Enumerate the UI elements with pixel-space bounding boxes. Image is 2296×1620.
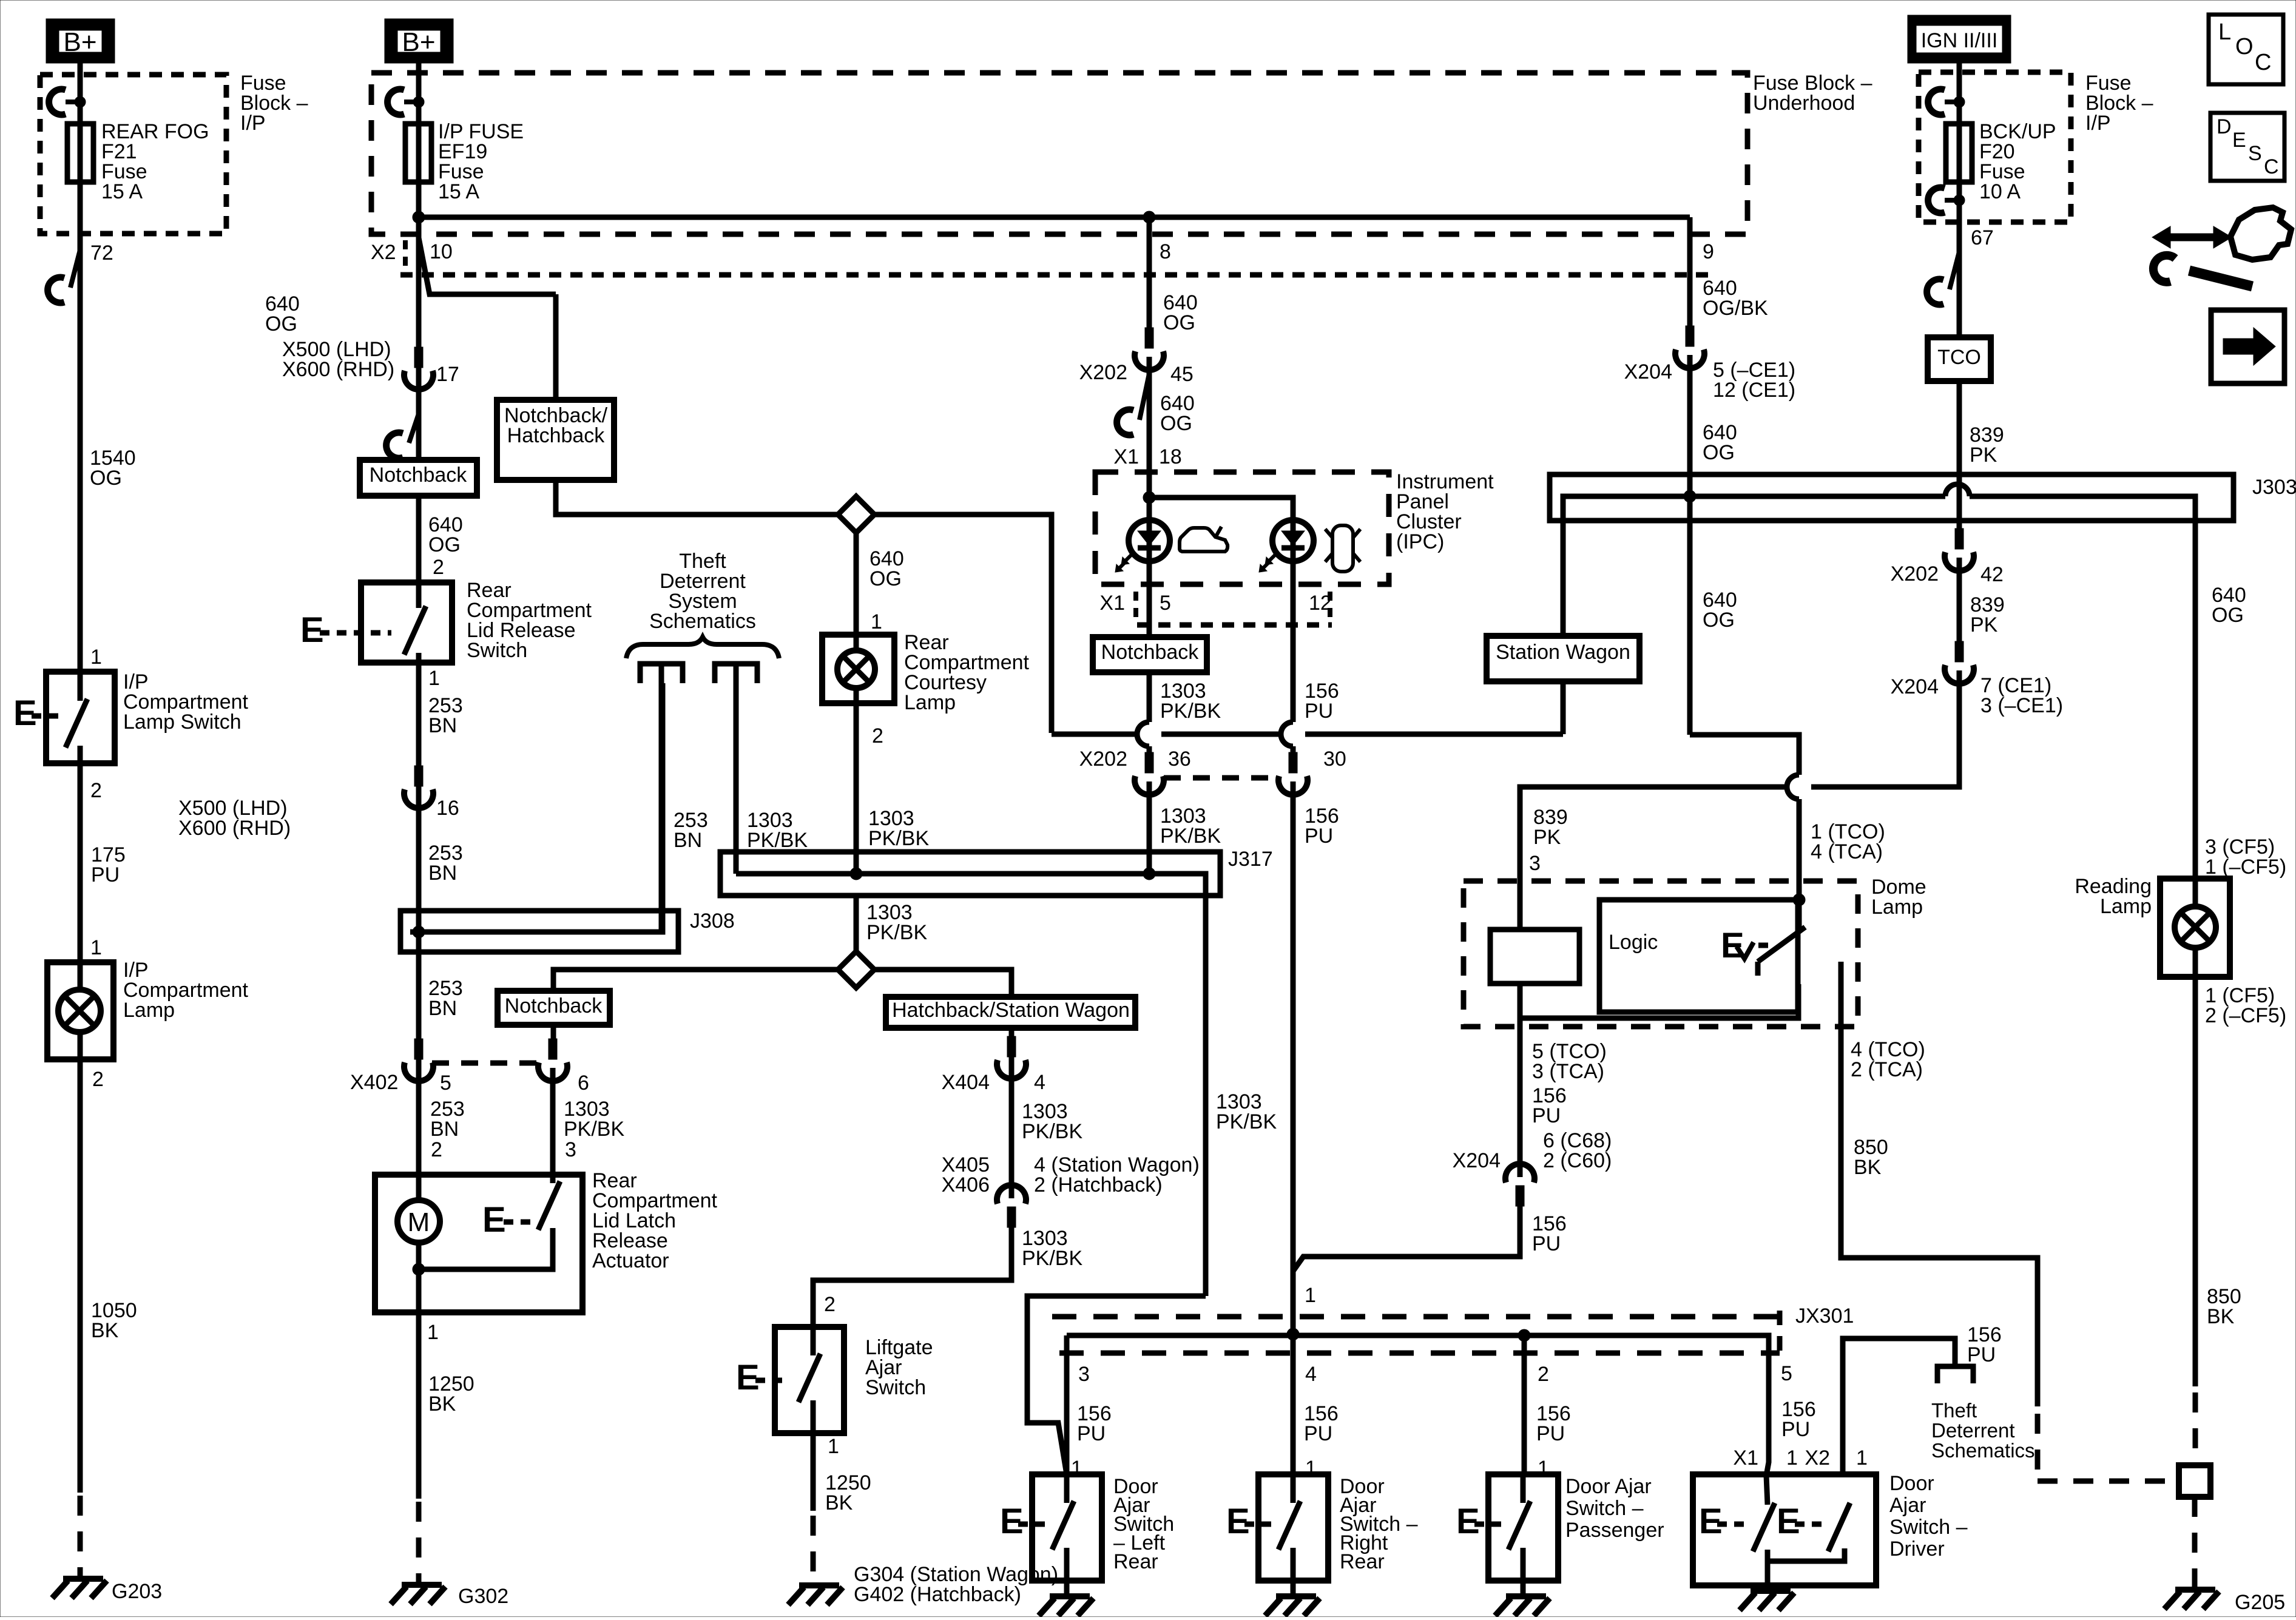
B+ power box 1 <box>46 19 115 63</box>
svg-text:OG: OG <box>265 312 297 336</box>
actuator switch contact L <box>419 1228 553 1269</box>
svg-text:G402 (Hatchback): G402 (Hatchback) <box>854 1583 1021 1606</box>
X402 dashed link <box>432 1061 539 1066</box>
Fuse Block - I/P dashed box <box>40 75 226 234</box>
svg-text:16: 16 <box>436 797 459 820</box>
ground G205 <box>2175 1587 2215 1593</box>
door ajar switch right rear lower contact <box>1291 1548 1296 1581</box>
actuator motor M <box>397 1200 440 1243</box>
svg-text:8: 8 <box>1160 240 1171 263</box>
door ajar switch passenger blade <box>1508 1501 1530 1550</box>
wire X404 to X405/X406 <box>1009 1065 1015 1198</box>
svg-text:Lamp: Lamp <box>2100 895 2152 918</box>
door ajar switch left rear box <box>1032 1474 1102 1581</box>
lamp switch lead <box>78 672 83 701</box>
svg-text:E: E <box>2232 129 2246 152</box>
svg-text:Lamp: Lamp <box>904 691 956 714</box>
svg-text:Hatchback/Station Wagon: Hatchback/Station Wagon <box>892 999 1130 1022</box>
svg-text:Ajar: Ajar <box>1889 1494 1926 1517</box>
svg-text:4: 4 <box>1034 1071 1045 1094</box>
svg-text:OG: OG <box>1163 311 1195 334</box>
X2 connector band dotted line <box>400 272 1717 278</box>
JX301 dashed band top <box>1052 1314 1780 1320</box>
car icon sedan <box>1180 528 1227 552</box>
svg-text:17: 17 <box>436 363 459 386</box>
svg-text:72: 72 <box>90 241 113 265</box>
svg-text:Switch: Switch <box>865 1376 926 1399</box>
connector X402 pin 5 <box>414 1039 423 1059</box>
svg-text:Deterrent: Deterrent <box>1931 1419 2015 1442</box>
bus wire to pins 8 and 9 <box>419 215 1690 220</box>
svg-text:PU: PU <box>1532 1104 1561 1127</box>
wire lamp to J317 <box>854 703 859 874</box>
long horizontal 1303 feed line y1210 <box>1052 732 1137 737</box>
junction dot at passenger drop <box>1518 1329 1530 1342</box>
wire pin5 down <box>1147 584 1152 637</box>
svg-text:X406: X406 <box>942 1173 990 1196</box>
svg-text:PU: PU <box>1781 1418 1810 1441</box>
ground G203 <box>63 1576 103 1582</box>
liftgate switch lead <box>811 1327 816 1355</box>
diamond splice 1 <box>838 496 874 533</box>
svg-text:BN: BN <box>428 714 457 737</box>
svg-text:BK: BK <box>2207 1305 2235 1328</box>
svg-text:30: 30 <box>1323 748 1346 771</box>
connector X202 pin 36 <box>1145 752 1153 773</box>
svg-text:S: S <box>2248 142 2262 165</box>
svg-text:I/P: I/P <box>240 112 266 135</box>
svg-text:PK/BK: PK/BK <box>1022 1247 1082 1270</box>
connector X202 pin 30 <box>1289 752 1297 773</box>
svg-text:E: E <box>482 1200 506 1240</box>
wire theft right stub to J317 <box>734 664 739 874</box>
door ajar switch passenger box <box>1488 1474 1558 1581</box>
LED indicator 2 (door ajar) <box>1272 520 1314 561</box>
ground under door ajar switch right rear <box>1276 1593 1316 1599</box>
svg-text:OG: OG <box>428 533 461 556</box>
wires into actuator <box>416 1068 422 1200</box>
driver ground stub <box>1765 1561 1771 1591</box>
svg-text:3 (TCA): 3 (TCA) <box>1532 1060 1604 1083</box>
LED indicator 1 (trunk open) <box>1129 520 1170 561</box>
I/P compartment lamp symbol <box>78 962 83 1059</box>
svg-text:O: O <box>2235 34 2254 59</box>
svg-text:PK: PK <box>1970 613 1998 636</box>
svg-text:2: 2 <box>872 724 883 748</box>
reading lamp symbol <box>2193 879 2198 977</box>
B+ power box 2 <box>385 19 453 63</box>
svg-text:C: C <box>2264 155 2279 178</box>
Rear Compartment Lid Latch Release Actuator box <box>375 1175 582 1312</box>
hop arc at x1894 crossing <box>1137 722 1149 746</box>
I/P Compartment Lamp Switch box <box>46 672 115 763</box>
svg-text:X1: X1 <box>1099 592 1125 615</box>
svg-text:1: 1 <box>90 936 102 959</box>
wire X204 down to JX301 jog <box>1293 1206 1520 1271</box>
svg-text:1: 1 <box>1305 1284 1316 1307</box>
diamond splice 2 <box>838 951 874 988</box>
svg-text:OG: OG <box>90 467 122 490</box>
svg-text:OG/BK: OG/BK <box>1703 297 1768 320</box>
Reading Lamp box <box>2160 879 2230 977</box>
JX301 band right edge <box>1777 1311 1783 1359</box>
jog hook below X500 17 <box>409 414 419 443</box>
Station Wagon box <box>1487 636 1639 681</box>
svg-text:10: 10 <box>430 240 453 263</box>
J303 middle wire <box>1563 496 1945 636</box>
in-line connector jog below 72 <box>70 250 80 288</box>
svg-text:PK: PK <box>1533 826 1561 849</box>
theft deterrent stub (driver) <box>1937 1366 1973 1383</box>
svg-text:Notchback: Notchback <box>505 994 603 1018</box>
IPC X1 pin row: dotted line <box>1137 623 1332 628</box>
svg-text:Passenger: Passenger <box>1565 1519 1664 1542</box>
connector X202 pin 45 <box>1145 328 1153 348</box>
svg-text:2: 2 <box>433 556 444 579</box>
svg-text:Lamp: Lamp <box>123 999 175 1022</box>
hop arc at x2131 crossing <box>1281 722 1293 746</box>
splice J317 outer box <box>720 852 1220 896</box>
in-line connector X500/X600 16 <box>414 766 423 786</box>
fuse F21 <box>67 124 93 182</box>
dome switch contact stub <box>1755 962 1761 976</box>
svg-text:BN: BN <box>428 997 457 1020</box>
door ajar switch left rear blade <box>1052 1501 1074 1550</box>
Notchback/Hatchback box <box>497 400 614 480</box>
svg-text:B+: B+ <box>402 27 435 57</box>
svg-text:2: 2 <box>431 1138 442 1161</box>
svg-text:OG: OG <box>869 567 902 590</box>
diamond-1 bottom to courtesy lamp <box>854 533 859 635</box>
arrow box <box>2211 310 2284 383</box>
door ajar switch right rear box <box>1258 1474 1328 1581</box>
wire M to bottom <box>416 1243 422 1312</box>
svg-text:X1: X1 <box>1113 445 1139 468</box>
svg-text:PK/BK: PK/BK <box>1160 700 1221 723</box>
wire to Notchback box <box>416 376 422 582</box>
svg-text:JX301: JX301 <box>1795 1304 1854 1328</box>
svg-text:1: 1 <box>428 667 440 690</box>
driver U link <box>1768 1548 1845 1561</box>
svg-text:BN: BN <box>430 1118 459 1141</box>
diamond-2 right branch to Hatchback/Station Wagon <box>874 970 1011 997</box>
dashed wire to G302 <box>416 1502 422 1585</box>
J308 middle wire <box>410 683 663 932</box>
wire X202-42 to X204 <box>1957 558 1962 644</box>
door ajar switch right rear top lead <box>1291 1474 1296 1503</box>
wire to X202-36 <box>1147 672 1152 722</box>
svg-text:PK/BK: PK/BK <box>868 827 929 850</box>
svg-text:(IPC): (IPC) <box>1396 530 1444 553</box>
svg-text:BN: BN <box>428 862 457 885</box>
lid release switch lead <box>416 582 422 608</box>
svg-text:2 (Hatchback): 2 (Hatchback) <box>1034 1173 1163 1196</box>
junction dot EF19 to bus <box>413 211 425 223</box>
door ajar switch left rear lower contact <box>1064 1548 1070 1581</box>
svg-text:1 (–CF5): 1 (–CF5) <box>2205 856 2286 879</box>
svg-text:2 (C60): 2 (C60) <box>1543 1149 1612 1172</box>
svg-text:Theft: Theft <box>1931 1399 1977 1422</box>
svg-text:Actuator: Actuator <box>592 1249 669 1272</box>
I/P Compartment Lamp box <box>47 962 113 1059</box>
connector X405/X406 flipped <box>1007 1207 1016 1227</box>
wire IGN into fuse block <box>1957 63 1962 124</box>
svg-text:X402: X402 <box>350 1071 398 1094</box>
svg-text:E: E <box>1721 926 1744 965</box>
wire B+1 to fuse block <box>78 63 83 124</box>
svg-text:Station Wagon: Station Wagon <box>1496 641 1630 664</box>
Liftgate Ajar Switch box <box>775 1327 844 1433</box>
svg-text:36: 36 <box>1168 748 1191 771</box>
fuse EF19 <box>405 124 431 182</box>
wire LED2 down <box>1291 520 1296 625</box>
svg-text:X202: X202 <box>1891 562 1939 586</box>
svg-text:X1: X1 <box>1733 1446 1758 1470</box>
driver X1 lead <box>1766 1476 1768 1505</box>
theft stub terminal right <box>715 664 757 683</box>
wire liftgate to ground <box>811 1433 816 1511</box>
junction dot pin8 <box>1143 211 1155 223</box>
svg-text:3: 3 <box>1078 1363 1090 1386</box>
svg-text:G203: G203 <box>112 1580 162 1603</box>
J317 middle wire <box>736 874 1206 1296</box>
bus corner down at pin 9 <box>1687 217 1693 329</box>
junction dot J317 at 1894 <box>1143 868 1155 880</box>
wire reading lamp down <box>2193 977 2198 1386</box>
connector hook at F20 top <box>1928 89 1945 115</box>
svg-text:PK/BK: PK/BK <box>1160 825 1221 848</box>
door ajar switch passenger ground stub <box>1521 1581 1526 1596</box>
JX301 dashed band bottom <box>1059 1351 1780 1356</box>
svg-text:42: 42 <box>1980 563 2004 586</box>
svg-text:Rear: Rear <box>1113 1550 1158 1573</box>
wire X204 through J303 <box>1687 355 1693 735</box>
courtesy lamp symbol <box>854 635 859 703</box>
junction dot JX301 at 2131 <box>1287 1328 1299 1340</box>
junction dot J303 <box>1684 490 1696 502</box>
svg-text:X202: X202 <box>1079 748 1127 771</box>
wire actuator to ground <box>416 1312 422 1499</box>
svg-text:BK: BK <box>825 1491 853 1514</box>
in-line connector X500/X600 17 <box>414 347 423 368</box>
car icon top view with doors <box>1332 525 1353 572</box>
wire to J308 <box>416 795 422 1068</box>
svg-text:BK: BK <box>1854 1156 1882 1179</box>
wire corner right to dome feed <box>1690 735 1799 775</box>
svg-text:3: 3 <box>565 1138 576 1161</box>
svg-text:OG: OG <box>2212 604 2244 627</box>
svg-text:2 (–CF5): 2 (–CF5) <box>2205 1004 2286 1027</box>
junction dot J308 <box>413 926 425 938</box>
svg-text:4 (TCA): 4 (TCA) <box>1811 840 1883 863</box>
svg-text:X204: X204 <box>1624 360 1672 383</box>
svg-text:3: 3 <box>1529 852 1541 875</box>
svg-text:PU: PU <box>1304 1422 1332 1445</box>
service icon: double arrow, car, wrench <box>2152 226 2232 248</box>
junction dot actuator <box>413 1263 425 1275</box>
svg-text:5: 5 <box>1160 592 1171 615</box>
wire pin12 down to X202-30 <box>1291 625 1296 722</box>
wire pin8 from bus down <box>1147 217 1152 330</box>
Dome Lamp dashed box <box>1464 881 1858 1027</box>
connector X402 pin 6 <box>549 1039 557 1059</box>
svg-text:BK: BK <box>91 1319 119 1342</box>
svg-text:X202: X202 <box>1079 361 1127 384</box>
Fuse Block - Underhood dashed box <box>371 73 1747 234</box>
svg-text:TCO: TCO <box>1937 346 1981 369</box>
Rear Compartment Courtesy Lamp box <box>822 635 894 703</box>
connector hook at EF19 top <box>388 89 404 115</box>
svg-text:M: M <box>408 1207 430 1237</box>
svg-text:2 (TCA): 2 (TCA) <box>1851 1058 1923 1081</box>
svg-text:Door: Door <box>1889 1472 1934 1495</box>
theft stub terminal left <box>640 664 683 683</box>
wire X204 down and left to Logic <box>1811 670 1959 787</box>
dome TCO/TCA output wire <box>1520 984 1798 1018</box>
hop arc 640OG over 839PK line <box>1787 775 1799 799</box>
diamond-1 right branch to IPC <box>874 515 1052 733</box>
wire X202-36 to J317 <box>1147 781 1152 874</box>
svg-text:15 A: 15 A <box>101 180 143 203</box>
Hatchback/Station Wagon box <box>886 997 1135 1028</box>
svg-text:X600 (RHD): X600 (RHD) <box>282 358 394 381</box>
dashed wire to G304/G402 <box>811 1516 816 1585</box>
liftgate switch lower contact <box>811 1400 816 1433</box>
svg-text:15 A: 15 A <box>438 180 479 203</box>
svg-text:Lamp: Lamp <box>1871 896 1923 919</box>
svg-text:18: 18 <box>1159 445 1182 468</box>
door ajar switch right rear blade <box>1278 1501 1300 1550</box>
junction dot LED branch <box>1143 491 1155 504</box>
svg-text:1: 1 <box>871 610 882 633</box>
svg-text:Underhood: Underhood <box>1753 92 1855 115</box>
svg-text:PK/BK: PK/BK <box>1022 1120 1082 1143</box>
svg-text:Switch: Switch <box>467 639 527 662</box>
Fuse Block - I/P dashed box (right) <box>1919 72 2071 222</box>
wire to X500 16 <box>416 663 422 795</box>
door ajar switch left rear top lead <box>1064 1474 1070 1503</box>
door ajar switch passenger lower contact <box>1521 1548 1526 1581</box>
door ajar switch passenger top lead <box>1521 1474 1526 1503</box>
wire lamp to ground <box>78 1059 83 1493</box>
Notchback label box 2 <box>498 991 610 1025</box>
Instrument Panel Cluster dashed box <box>1095 472 1389 584</box>
svg-text:PU: PU <box>1536 1422 1565 1445</box>
wire J303 to Station Wagon box <box>1561 496 1566 636</box>
lid release switch blade <box>404 606 426 655</box>
svg-text:10 A: 10 A <box>1979 180 2021 203</box>
driver X2 blade <box>1828 1503 1850 1551</box>
branch wire to LED2 <box>1149 498 1293 520</box>
jog hook below 67 <box>1950 252 1959 289</box>
svg-text:X204: X204 <box>1891 675 1939 698</box>
svg-text:J317: J317 <box>1228 848 1273 871</box>
dashed 850 BK dome path to splice <box>2035 1414 2041 1481</box>
svg-text:1: 1 <box>1786 1446 1798 1470</box>
splice square box <box>2179 1465 2210 1497</box>
wire TCO to J303 <box>1957 381 1962 532</box>
long 156 PU wire down to JX301 <box>1291 781 1296 1334</box>
connector X404 pin 4 <box>1007 1036 1016 1057</box>
svg-text:PU: PU <box>1532 1232 1561 1255</box>
svg-text:3 (–CE1): 3 (–CE1) <box>1980 694 2063 717</box>
svg-text:OG: OG <box>1703 441 1735 464</box>
svg-text:X2: X2 <box>371 241 396 264</box>
svg-text:D: D <box>2217 115 2232 138</box>
wire theft left stub to J308 <box>659 664 664 932</box>
wire branch down to Notchback/Hatchback box <box>553 294 559 400</box>
dome lamp 850 BK output <box>1841 962 2038 1406</box>
dashed wire to G205 <box>2192 1497 2198 1590</box>
svg-text:X2: X2 <box>1805 1446 1830 1470</box>
jog hook below X202-45 <box>1140 374 1149 420</box>
ground under door ajar switch passenger <box>1506 1593 1546 1599</box>
TCO box <box>1928 337 1991 381</box>
svg-text:PU: PU <box>1305 700 1333 723</box>
wire F21 down <box>78 182 83 672</box>
svg-text:Switch –: Switch – <box>1889 1516 1968 1539</box>
svg-text:4: 4 <box>1305 1363 1317 1386</box>
driver X1 blade <box>1753 1503 1775 1551</box>
svg-text:5: 5 <box>440 1072 451 1095</box>
splice J308 outer box <box>400 911 678 952</box>
svg-text:12 (CE1): 12 (CE1) <box>1713 379 1795 402</box>
svg-text:Lamp Switch: Lamp Switch <box>123 710 241 734</box>
svg-text:1: 1 <box>828 1435 839 1458</box>
Logic outer box <box>1599 900 1798 1012</box>
Notchback label box (col2) <box>360 460 477 496</box>
svg-text:X600 (RHD): X600 (RHD) <box>178 817 291 840</box>
svg-text:1: 1 <box>90 646 102 669</box>
svg-text:BK: BK <box>428 1392 456 1416</box>
liftgate switch blade <box>799 1354 820 1402</box>
ground G304/G402 <box>799 1582 839 1588</box>
ground under door ajar switch left rear <box>1050 1593 1090 1599</box>
ground under driver switch <box>1751 1588 1791 1594</box>
right rear switch drop <box>1291 1334 1296 1474</box>
svg-text:IGN II/III: IGN II/III <box>1921 29 1998 52</box>
lamp switch lower contact <box>78 746 83 763</box>
svg-text:67: 67 <box>1971 226 1994 249</box>
svg-text:X204: X204 <box>1453 1149 1501 1172</box>
svg-text:Switch –: Switch – <box>1565 1497 1644 1520</box>
svg-text:PU: PU <box>1967 1343 1996 1366</box>
connector hook at F21 top <box>49 89 66 115</box>
left rear switch drop <box>1064 1335 1070 1474</box>
svg-text:9: 9 <box>1703 240 1714 263</box>
wire F20 down <box>1957 182 1962 337</box>
driver X2 contact <box>1842 1550 1848 1561</box>
svg-text:I/P: I/P <box>2085 112 2111 135</box>
wire X405 down to liftgate <box>813 1227 1011 1327</box>
svg-text:L: L <box>2218 19 2231 45</box>
svg-text:J308: J308 <box>690 910 735 933</box>
svg-text:J303: J303 <box>2252 476 2296 499</box>
Door Ajar Switch Driver box <box>1693 1474 1876 1585</box>
svg-text:C: C <box>2255 50 2271 75</box>
wire B+2 into fuse block <box>416 63 422 124</box>
dome switch lead <box>1797 900 1802 930</box>
svg-text:PK/BK: PK/BK <box>564 1118 624 1141</box>
Rear Compartment Lid Release Switch box <box>361 582 452 663</box>
passenger switch drop <box>1522 1335 1527 1474</box>
svg-text:Door Ajar: Door Ajar <box>1565 1475 1652 1498</box>
wire J317 to diamond-2 <box>854 896 859 953</box>
connector X204 6(C68)/2(C60) flipped <box>1516 1186 1524 1206</box>
svg-text:PK/BK: PK/BK <box>1216 1110 1277 1133</box>
wire Notchback2 to X402 pin 6 <box>551 1025 556 1040</box>
svg-text:BN: BN <box>674 829 702 852</box>
